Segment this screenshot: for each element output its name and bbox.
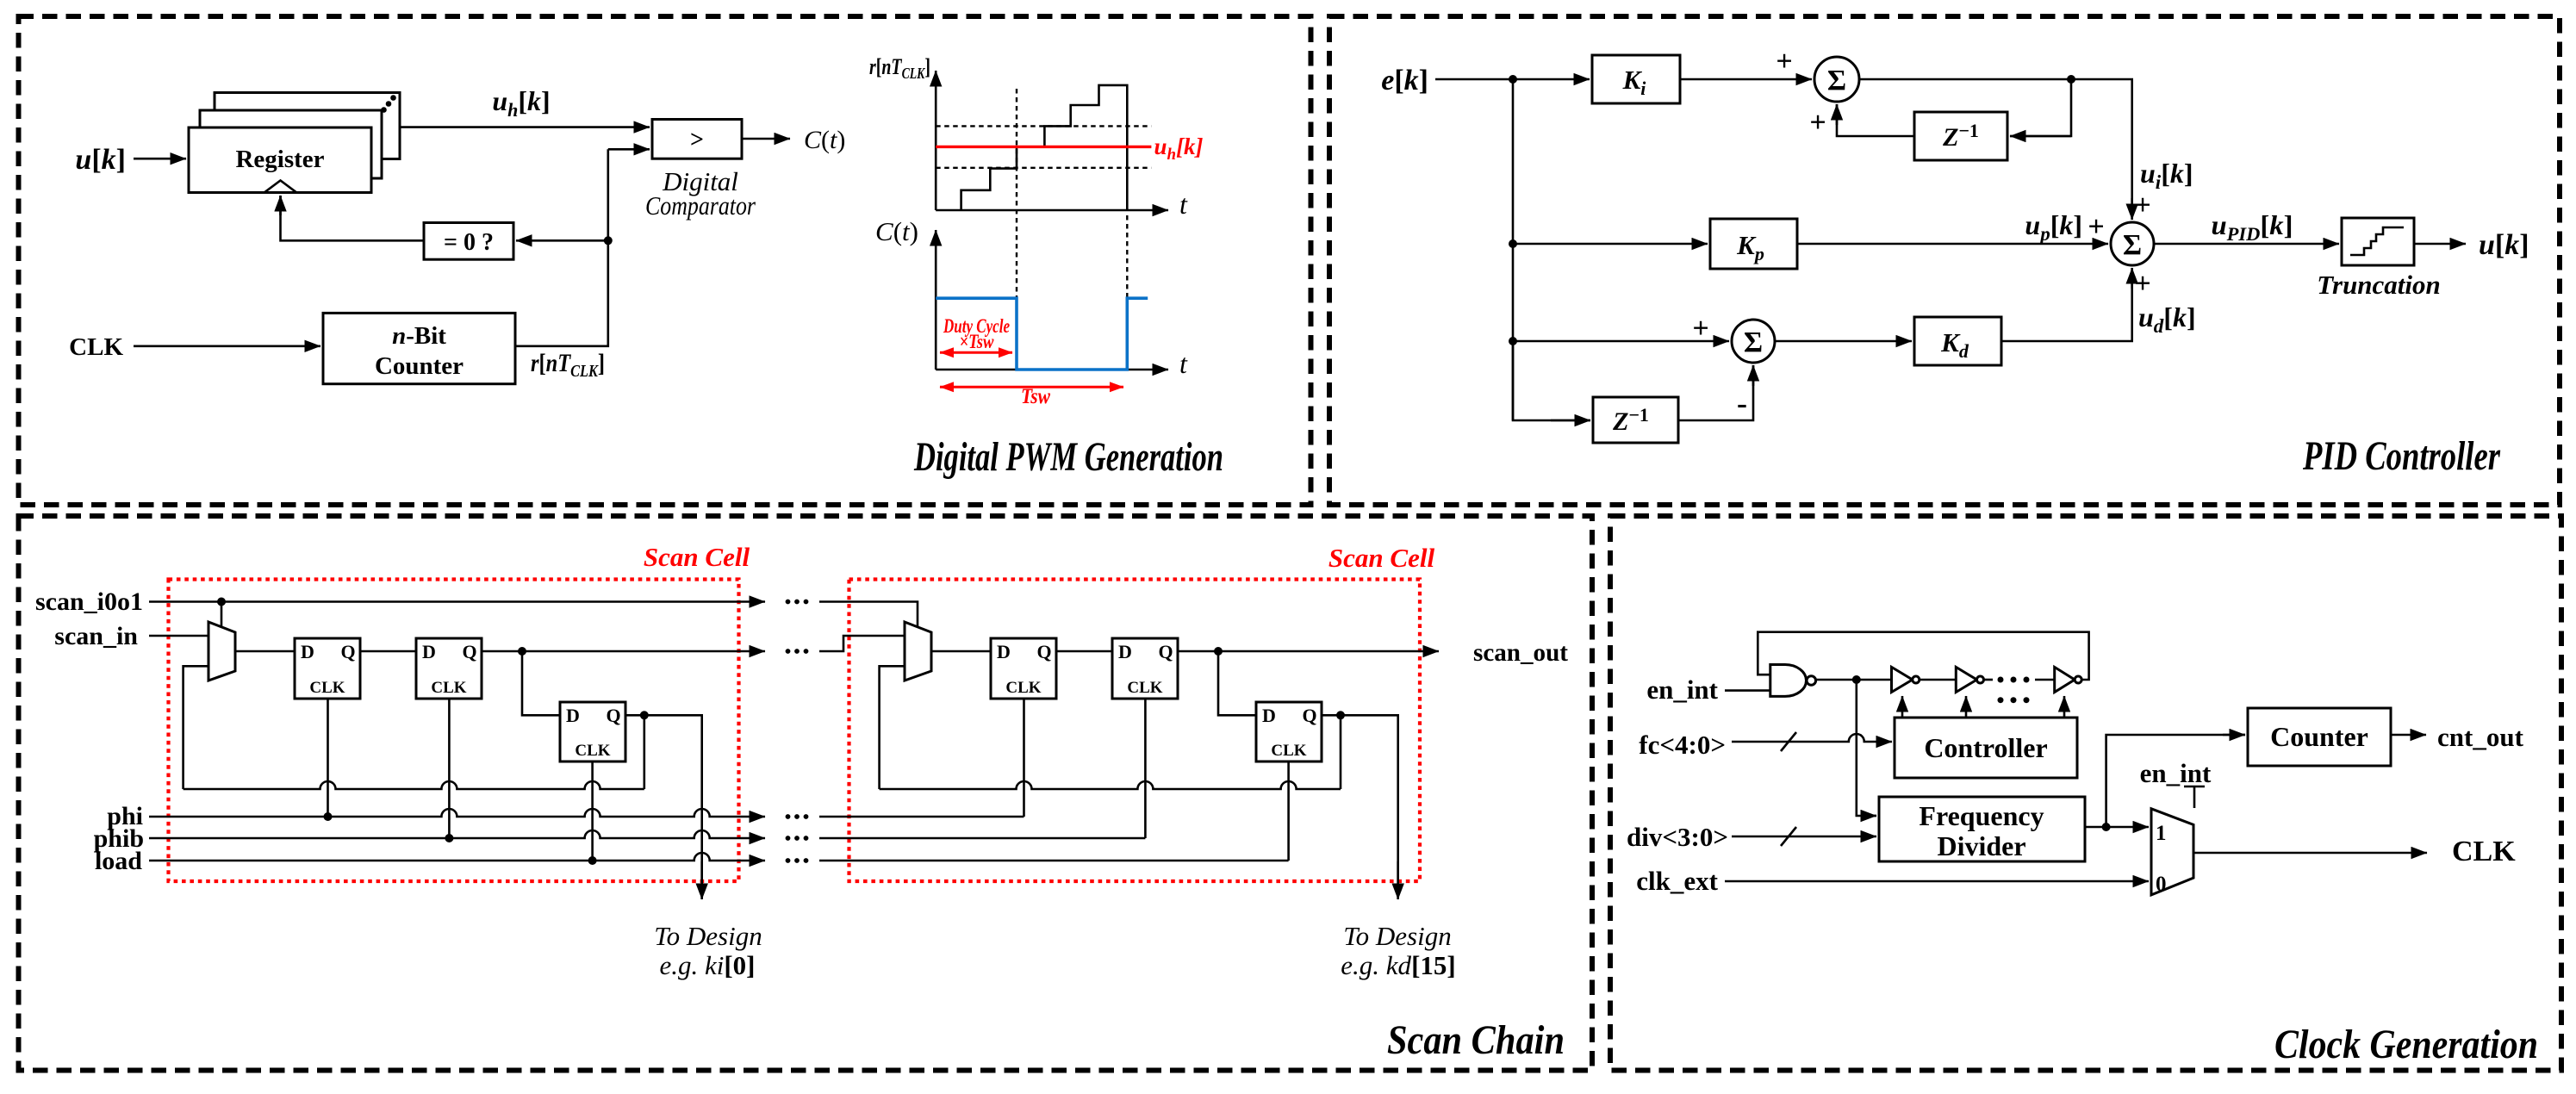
svg-text:t: t [1179,348,1188,379]
svg-text:scan_out: scan_out [1473,638,1568,667]
svg-text:en_int: en_int [1646,674,1718,705]
svg-text:+: + [2134,190,2150,221]
svg-text:Frequency: Frequency [1919,800,2044,831]
svg-text:0: 0 [2156,873,2167,896]
svg-text:uh[k]: uh[k] [492,85,550,121]
svg-text:+: + [2088,211,2104,243]
svg-text:Scan Cell: Scan Cell [644,542,750,572]
svg-text:Comparator: Comparator [645,190,756,221]
svg-text:en_int: en_int [2140,758,2212,788]
svg-text:CLK: CLK [431,679,466,697]
svg-text:Σ: Σ [2123,229,2142,261]
svg-text:clk_ext: clk_ext [1636,866,1718,896]
svg-text:C(t): C(t) [804,126,845,154]
svg-text:Σ: Σ [1827,65,1846,96]
svg-text:Q: Q [1158,641,1173,662]
svg-text:cnt_out: cnt_out [2437,722,2524,752]
svg-text:Q: Q [1036,641,1051,662]
svg-text:CLK: CLK [1127,679,1162,697]
svg-text:Register: Register [235,146,324,173]
svg-text:fc<4:0>: fc<4:0> [1639,730,1726,760]
svg-text:Controller: Controller [1924,732,2047,763]
svg-text:u[k]: u[k] [75,144,126,176]
svg-text:D: D [566,705,580,726]
svg-text:scan_in: scan_in [54,622,138,650]
svg-text:= 0 ?: = 0 ? [444,229,494,256]
svg-text:CLK: CLK [309,679,345,697]
svg-text:D: D [1118,641,1132,662]
svg-text:PID Controller: PID Controller [2302,433,2501,479]
svg-text:Digital PWM Generation: Digital PWM Generation [913,434,1223,480]
svg-text:Q: Q [1302,705,1316,726]
svg-text:Σ: Σ [1744,326,1763,358]
svg-text:Scan Chain: Scan Chain [1387,1017,1565,1063]
svg-text:+: + [1809,107,1826,139]
svg-text:>: > [690,127,704,153]
svg-text:Tsw: Tsw [1021,385,1050,408]
svg-text:D: D [997,641,1011,662]
svg-text:D: D [301,641,314,662]
svg-text:+: + [2134,268,2150,300]
svg-text:+: + [1692,313,1708,345]
svg-text:n-Bit: n-Bit [392,322,446,350]
svg-text:Counter: Counter [2270,721,2368,752]
svg-text:Clock Generation: Clock Generation [2274,1022,2538,1067]
svg-text:CLK: CLK [2452,836,2516,867]
svg-text:Divider: Divider [1937,830,2025,861]
svg-text:D: D [1262,705,1276,726]
svg-text:uh[k]: uh[k] [1154,134,1203,164]
svg-text:CLK: CLK [69,333,123,361]
svg-text:D: D [422,641,436,662]
svg-text:Q: Q [340,641,355,662]
svg-text:Truncation: Truncation [2317,270,2441,300]
svg-text:-: - [1737,386,1747,420]
svg-text:C(t): C(t) [875,216,918,246]
svg-text:To Design: To Design [654,921,762,951]
svg-text:+: + [1776,46,1792,78]
svg-text:CLK: CLK [1271,742,1306,760]
svg-text:e.g. kd[15]: e.g. kd[15] [1341,950,1455,980]
svg-text:1: 1 [2156,822,2167,845]
svg-text:load: load [95,847,142,875]
svg-text:Q: Q [462,641,476,662]
svg-text:e.g. ki[0]: e.g. ki[0] [659,950,755,980]
svg-text:Scan Cell: Scan Cell [1328,543,1435,573]
svg-text:ui[k]: ui[k] [2140,158,2193,193]
svg-text:div<3:0>: div<3:0> [1627,822,1728,852]
svg-text:Counter: Counter [375,352,464,380]
svg-text:×Tsw: ×Tsw [960,331,995,352]
svg-text:Q: Q [606,705,620,726]
svg-text:t: t [1179,189,1188,220]
svg-text:u[k]: u[k] [2479,229,2529,261]
svg-text:e[k]: e[k] [1381,65,1428,96]
svg-text:CLK: CLK [575,742,610,760]
svg-text:scan_i0o1: scan_i0o1 [35,587,143,616]
svg-text:CLK: CLK [1005,679,1041,697]
svg-text:up[k]: up[k] [2025,209,2082,245]
svg-text:To Design: To Design [1343,921,1451,951]
svg-text:ud[k]: ud[k] [2138,301,2196,337]
